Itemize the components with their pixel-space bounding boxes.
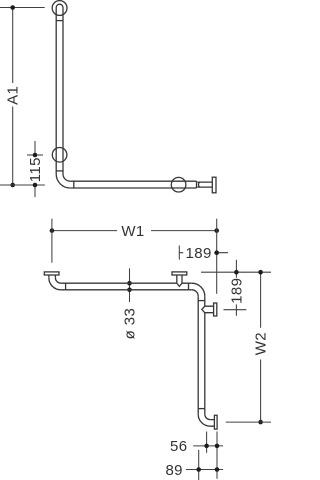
tick 89 left (198, 450, 200, 480)
right bend inner arc (192, 290, 198, 296)
dimension line diameter 33 (129, 268, 131, 302)
collar after bend (73, 181, 75, 188)
right bend outer arc (192, 283, 205, 296)
vertical tube edges plan (198, 296, 205, 414)
horizontal tube edges plan (61, 283, 192, 290)
dimension line 89 (186, 469, 223, 471)
vertical tube edges (56, 21, 63, 174)
wall bracket circle on horizontal tube (171, 177, 186, 192)
left bend outer arc (49, 278, 61, 290)
collar after left bend (65, 283, 67, 290)
collar above bend (56, 170, 63, 172)
dot W2 top (258, 270, 263, 275)
dimension line W1 (52, 230, 217, 232)
dot A1 bottom (10, 183, 15, 188)
collar before right bend (188, 283, 190, 290)
tick 189h (178, 246, 180, 260)
wall tick right (216, 431, 218, 478)
dot d33 top (127, 281, 132, 286)
bend inner arc (63, 174, 70, 181)
dot 115 top (33, 153, 38, 158)
svg-text:189: 189 (185, 245, 211, 262)
collar above bottom bend (198, 408, 205, 410)
tick 189v bottom (224, 309, 247, 311)
svg-text:A1: A1 (5, 86, 22, 105)
dot 56 right (215, 444, 220, 449)
dot A1 top (10, 5, 15, 10)
dot 189v top (234, 270, 239, 275)
dot W1 left (50, 228, 55, 233)
wall plane extension right (216, 219, 218, 294)
dot 89 left (196, 467, 201, 472)
dot W2 bottom (258, 420, 263, 425)
dot W1 right (214, 228, 219, 233)
top flange 2 plate (172, 272, 187, 275)
dimension line W2 (260, 272, 262, 422)
tube rounded cap inside flange (56, 4, 63, 20)
bottom bend inner arc (205, 414, 210, 419)
dot 189h right (214, 250, 219, 255)
dimension line A1 (12, 8, 14, 186)
bend outer arc (56, 174, 70, 188)
dimension line 56 (193, 445, 223, 447)
top flange 2 neck with chevron (177, 275, 182, 286)
horizontal tube edges (70, 181, 196, 188)
dot 115 bottom (33, 183, 38, 188)
support neck (197, 182, 212, 187)
svg-text:115: 115 (27, 157, 44, 182)
support collar at right end (196, 181, 198, 188)
left wall plate (44, 272, 59, 275)
collar below flange (56, 20, 63, 22)
dot 56 left (204, 444, 209, 449)
side flange plate (214, 303, 217, 316)
left bend inner arc (55, 278, 60, 284)
dimension line 189 horizontal (179, 252, 228, 254)
wall plane extension top (201, 271, 271, 273)
side flange neck with chevron (202, 306, 214, 313)
extension line top (flange center level) (0, 7, 45, 9)
wall bracket circle on vertical tube (52, 148, 67, 163)
support neck curve (198, 182, 199, 187)
dimension line 115 (34, 141, 36, 197)
extension line bottom (tube axis level) (0, 184, 45, 186)
extension line left flange (51, 219, 53, 263)
svg-text:56: 56 (170, 438, 188, 455)
left neck edges (49, 275, 56, 278)
svg-text:W2: W2 (253, 332, 270, 355)
wall plate right end (212, 177, 216, 193)
bottom wall plate (214, 415, 217, 429)
bottom bend outer arc (198, 414, 210, 426)
bottom stub edges (210, 420, 214, 427)
wall flange circle (top end) (52, 1, 67, 16)
dimension line 189 vertical (235, 260, 237, 316)
svg-text:189: 189 (228, 278, 245, 304)
tick 56 left (206, 432, 208, 453)
svg-text:89: 89 (165, 462, 183, 479)
svg-text:W1: W1 (121, 223, 144, 240)
wall plane extension bottom end (226, 421, 271, 423)
dot 89 right (215, 467, 220, 472)
tick 115 top (27, 154, 43, 156)
dot d33 bottom (127, 288, 132, 293)
svg-text:ø 33: ø 33 (122, 308, 139, 340)
collar below right bend (198, 300, 205, 302)
